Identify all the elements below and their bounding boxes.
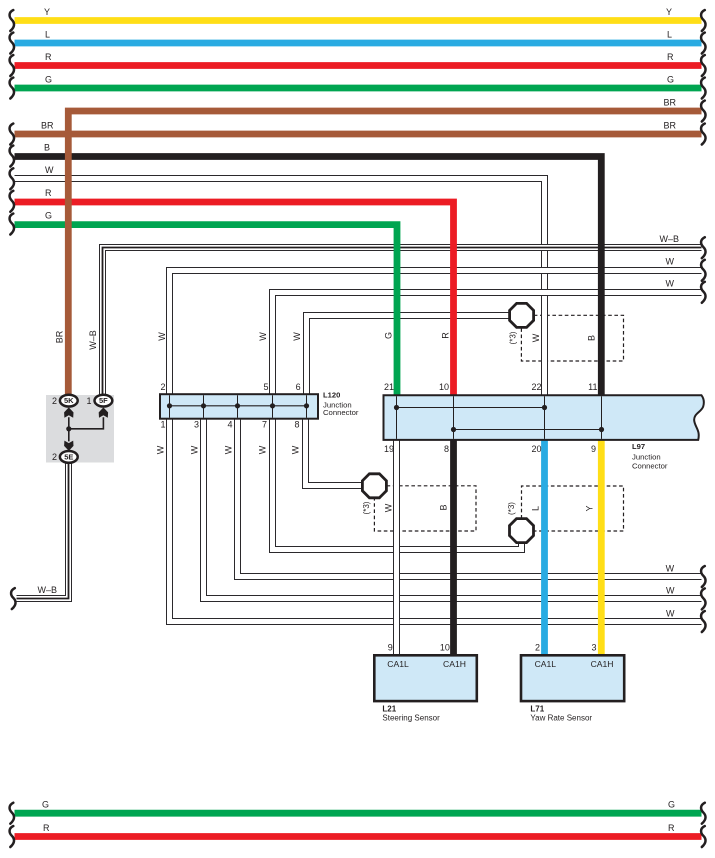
svg-text:4: 4 [227, 420, 232, 430]
svg-text:G: G [384, 332, 394, 339]
svg-text:W: W [224, 445, 234, 454]
svg-text:CA1H: CA1H [591, 659, 614, 669]
svg-text:B: B [587, 335, 597, 341]
svg-text:8: 8 [444, 444, 449, 454]
svg-text:L97: L97 [632, 442, 645, 451]
wire continuation symbol (left) [10, 146, 14, 167]
wire R from left into L97 pin 10 [15, 202, 454, 395]
dashed shield box around W/B wires of L21 circuit (*3) [374, 486, 476, 531]
svg-text:5F: 5F [99, 396, 108, 405]
shield symbol (octagon) on drain of L21 circuit [362, 474, 386, 498]
svg-text:Y: Y [666, 7, 672, 17]
wire continuation symbol (left) [10, 826, 14, 847]
svg-text:W: W [190, 445, 200, 454]
svg-text:CA1H: CA1H [443, 659, 466, 669]
svg-text:2: 2 [535, 643, 540, 653]
wire shield drain from L120 pin 7 to shield symbol of L71 circuit [273, 419, 522, 550]
wire continuation symbol (right) [701, 588, 705, 609]
svg-text:22: 22 [531, 382, 541, 392]
junction dot in splice block [66, 426, 71, 431]
svg-text:R: R [45, 52, 52, 62]
shield symbol (octagon) on drain into L97 circuit [510, 303, 534, 327]
wire continuation symbol (left) [10, 78, 14, 99]
svg-text:L: L [531, 506, 541, 511]
svg-text:Connector: Connector [323, 408, 359, 417]
svg-text:5: 5 [263, 382, 268, 392]
wire W (bottom run to steering sensor area, pin 4 of L120) [238, 419, 702, 577]
wire continuation symbol (right) [701, 237, 705, 258]
arrow into 5K [64, 407, 73, 417]
svg-text:(*3): (*3) [507, 502, 516, 515]
wire L top [15, 40, 702, 47]
svg-text:B: B [44, 143, 50, 153]
wire continuation symbol (left) [10, 214, 14, 235]
svg-text:R: R [667, 52, 674, 62]
arrow into 5E [64, 441, 73, 451]
svg-text:20: 20 [531, 444, 541, 454]
svg-text:L: L [667, 30, 672, 40]
svg-text:21: 21 [384, 382, 394, 392]
svg-text:Y: Y [44, 7, 50, 17]
svg-text:W–B: W–B [660, 234, 680, 244]
svg-text:R: R [441, 332, 451, 339]
svg-text:2: 2 [52, 452, 57, 462]
wire W (bottom run, pin 1 of L120) [170, 419, 702, 622]
svg-text:W: W [666, 279, 675, 289]
svg-text:8: 8 [294, 420, 299, 430]
splice 5E [60, 451, 78, 463]
connector L71 Yaw Rate Sensor body [521, 655, 624, 701]
wire continuation symbol (left) [10, 191, 14, 212]
wire continuation symbol (right) [701, 260, 705, 281]
wire continuation symbol (left) [10, 33, 14, 54]
svg-text:BR: BR [55, 330, 65, 343]
svg-text:BR: BR [41, 121, 54, 131]
svg-text:W: W [666, 257, 675, 267]
svg-text:L21: L21 [382, 704, 396, 713]
wire Y top [15, 17, 702, 24]
wire continuation symbol (left, W-B) [11, 588, 15, 609]
svg-text:1: 1 [160, 420, 165, 430]
svg-text:W: W [258, 445, 268, 454]
connector block with splices 5K 5F 5E [46, 395, 114, 463]
wire continuation symbol (left) [10, 10, 14, 31]
svg-text:(*3): (*3) [362, 501, 371, 514]
svg-text:7: 7 [262, 420, 267, 430]
junction connector L97 body [384, 395, 704, 440]
svg-text:W: W [384, 503, 394, 512]
svg-text:9: 9 [388, 643, 393, 653]
svg-text:W: W [666, 608, 675, 618]
svg-text:BR: BR [664, 121, 677, 131]
svg-text:Steering Sensor: Steering Sensor [382, 714, 440, 723]
svg-text:W: W [156, 445, 166, 454]
splice 5K [60, 395, 78, 407]
dashed shield box around W/B wires into L97 (*3) [521, 315, 623, 361]
wire continuation symbol (left) [10, 803, 14, 824]
svg-text:W: W [157, 332, 167, 341]
shield symbol (octagon) on drain of L71 circuit [510, 519, 534, 543]
svg-text:2: 2 [160, 382, 165, 392]
svg-text:G: G [45, 75, 52, 85]
svg-text:G: G [668, 800, 675, 810]
svg-text:W: W [666, 586, 675, 596]
svg-text:G: G [45, 211, 52, 221]
splice link lines [69, 417, 104, 441]
wire W-B from right into connector 5F [103, 248, 702, 396]
wire continuation symbol (left) [10, 55, 14, 76]
wire BR from right down into connector 5K [68, 111, 701, 395]
wire W from right into L120 pin 5 [273, 293, 702, 395]
wire W from right into L120 pin 2 [170, 271, 702, 395]
svg-text:R: R [668, 823, 675, 833]
wire BR second full-width run [15, 131, 702, 138]
svg-text:3: 3 [591, 643, 596, 653]
wire G from left into L97 pin 21 [15, 225, 398, 395]
svg-text:10: 10 [440, 643, 450, 653]
svg-text:R: R [43, 823, 50, 833]
svg-text:W: W [291, 445, 301, 454]
L120 junction dots [167, 403, 172, 408]
svg-text:1: 1 [86, 396, 91, 406]
svg-text:Y: Y [585, 505, 595, 511]
svg-text:L120: L120 [323, 391, 340, 400]
svg-text:Connector: Connector [632, 461, 668, 470]
wire continuation symbol (right) [701, 78, 705, 99]
svg-text:Yaw Rate Sensor: Yaw Rate Sensor [530, 714, 592, 723]
wire G bottom run [15, 810, 702, 817]
svg-text:L: L [45, 30, 50, 40]
wire continuation symbol (right) [701, 10, 705, 31]
svg-text:9: 9 [591, 444, 596, 454]
wire B from left into L97 pin 11 [15, 157, 602, 395]
wire continuation symbol (right) [701, 33, 705, 54]
svg-text:W–B: W–B [38, 585, 58, 595]
wire G top [15, 85, 702, 92]
svg-text:W: W [258, 332, 268, 341]
dashed shield box around L/Y wires of L71 circuit (*3) [522, 486, 624, 531]
splice 5F [95, 395, 113, 407]
svg-text:5E: 5E [64, 453, 73, 462]
L120 internal bus line [169, 395, 171, 418]
svg-text:(*3): (*3) [509, 331, 518, 344]
wire W (top run) from left into L97 pin 22 [15, 179, 545, 395]
wire W from L97 pin 19 down to L21 pin 9 [393, 441, 400, 656]
svg-text:11: 11 [588, 382, 597, 392]
L97 internal wire paths [396, 396, 398, 439]
svg-text:G: G [42, 800, 49, 810]
svg-text:BR: BR [664, 98, 677, 108]
wire Y from L97 pin 9 to L71 pin 3 CA1H [598, 441, 605, 656]
wire continuation symbol (right) [701, 124, 705, 145]
svg-text:10: 10 [439, 382, 449, 392]
wire continuation symbol (right) [701, 282, 705, 303]
wire R top [15, 62, 702, 69]
svg-text:3: 3 [194, 420, 199, 430]
L97 junction dots [394, 405, 399, 410]
svg-text:Junction: Junction [632, 452, 661, 461]
svg-text:G: G [667, 75, 674, 85]
connector L21 Steering Sensor body [374, 655, 477, 701]
svg-text:5K: 5K [64, 396, 74, 405]
wire continuation symbol (right) [701, 101, 705, 122]
svg-text:6: 6 [296, 382, 301, 392]
wire L from L97 pin 20 to L71 pin 2 CA1L [541, 441, 548, 656]
svg-text:R: R [45, 188, 52, 198]
svg-text:W–B: W–B [88, 330, 98, 350]
wire shield drain from L120 pin 6 to shield symbol near L97 [307, 316, 510, 395]
wire B from L97 pin 8 to L21 pin 10 CA1H [450, 441, 457, 656]
wire continuation symbol (left) [10, 168, 14, 189]
svg-text:CA1L: CA1L [387, 659, 409, 669]
wire continuation symbol (right) [701, 55, 705, 76]
svg-text:CA1L: CA1L [535, 659, 557, 669]
svg-text:L71: L71 [530, 704, 544, 713]
wire continuation symbol (right) [701, 611, 705, 632]
svg-text:19: 19 [384, 444, 394, 454]
svg-text:B: B [439, 504, 449, 510]
wire R bottom run [15, 833, 702, 840]
svg-text:2: 2 [52, 396, 57, 406]
svg-text:W: W [292, 332, 302, 341]
wire continuation symbol (left) [10, 124, 14, 145]
wire continuation symbol (right) [701, 566, 705, 587]
wire shield drain from L120 pin 8 to shield symbol of L21 circuit [306, 419, 364, 486]
arrow into 5F [99, 407, 108, 417]
wire continuation symbol (right) [701, 826, 705, 847]
svg-text:W: W [45, 165, 54, 175]
svg-text:W: W [666, 563, 675, 573]
wire W (bottom run, pin 3 of L120) [204, 419, 702, 599]
svg-text:W: W [531, 333, 541, 342]
junction connector L120 body [160, 394, 318, 419]
wire W-B from connector 5E down and left to continuation [17, 463, 69, 599]
wire continuation symbol (right) [701, 803, 705, 824]
